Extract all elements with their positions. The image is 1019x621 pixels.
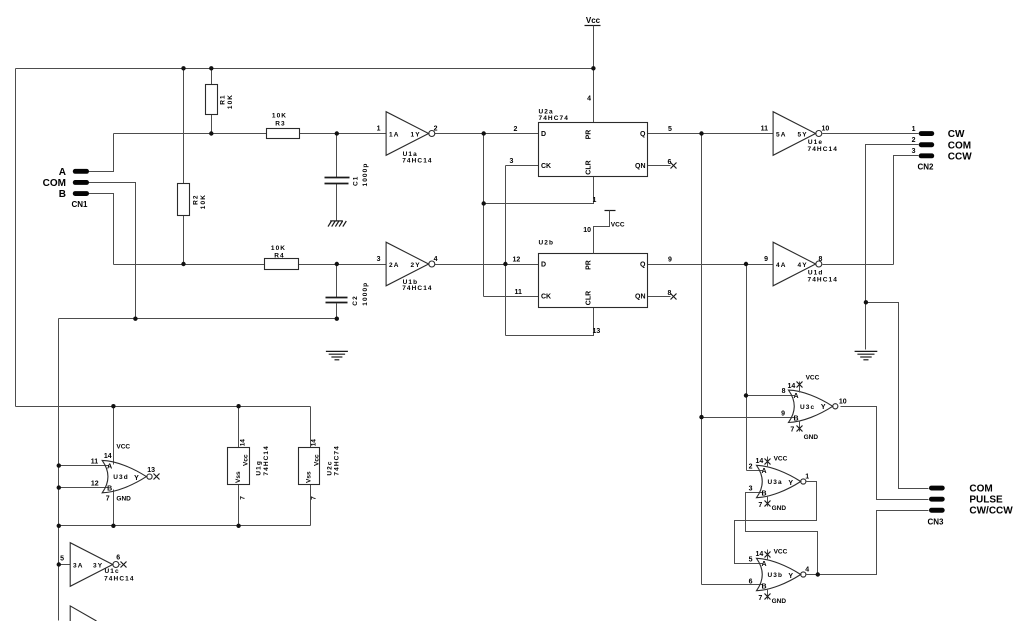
wire ground stem xyxy=(865,303,867,350)
svg-text:U3c: U3c xyxy=(800,404,815,411)
svg-text:11: 11 xyxy=(761,126,769,133)
svg-text:D: D xyxy=(541,131,546,138)
svg-text:B: B xyxy=(59,189,66,200)
svg-text:Q: Q xyxy=(640,262,646,269)
svg-text:1A: 1A xyxy=(389,131,400,138)
wire COM left vertical xyxy=(58,319,60,621)
svg-text:3: 3 xyxy=(749,486,753,493)
svg-text:GND: GND xyxy=(804,434,819,441)
svg-text:VCC: VCC xyxy=(116,443,130,450)
svg-text:PR: PR xyxy=(586,130,593,140)
svg-text:9: 9 xyxy=(668,257,672,264)
svg-text:74HC14: 74HC14 xyxy=(402,157,432,164)
svg-text:GND: GND xyxy=(772,598,787,605)
wire to U2a CK pin3 xyxy=(506,165,539,167)
wire B row to R4 xyxy=(114,264,265,266)
wire CN1 A to node xyxy=(89,134,114,172)
svg-text:14: 14 xyxy=(104,453,112,460)
inverter U1b 74HC14 xyxy=(386,242,435,286)
svg-text:D: D xyxy=(541,262,546,269)
svg-text:2: 2 xyxy=(514,126,518,133)
node Vcc/R1 xyxy=(209,66,213,70)
svg-text:10: 10 xyxy=(583,227,591,234)
wire Q9 node vertical xyxy=(746,265,748,471)
svg-text:B: B xyxy=(761,491,766,498)
svg-text:9: 9 xyxy=(781,410,785,417)
svg-text:4: 4 xyxy=(587,96,591,103)
svg-text:74HC74: 74HC74 xyxy=(539,115,569,122)
svg-text:11: 11 xyxy=(91,459,99,466)
wire U3a output pin1 to U3b input A pin5 xyxy=(735,482,817,564)
svg-text:CN1: CN1 xyxy=(72,200,89,209)
wire R2 top stem xyxy=(183,69,185,184)
wire U1e output to CN2 pin1 xyxy=(823,133,919,135)
resistor R3 xyxy=(267,129,300,139)
svg-text:U1d: U1d xyxy=(808,269,824,276)
svg-text:5: 5 xyxy=(60,556,64,563)
svg-text:8: 8 xyxy=(782,388,786,395)
no-connect X U1c output pin6 xyxy=(121,562,127,568)
wire GND lower rail xyxy=(59,525,311,527)
node Vcc stem xyxy=(591,66,595,70)
svg-text:12: 12 xyxy=(91,481,99,488)
node A/R1 xyxy=(209,131,213,135)
svg-text:A: A xyxy=(761,561,766,568)
wire U1c input xyxy=(59,564,71,566)
connector CN2 pin 3 xyxy=(919,153,935,158)
svg-text:14: 14 xyxy=(756,551,764,558)
svg-text:3A: 3A xyxy=(73,562,84,569)
ground (hatched) under C1 xyxy=(328,221,346,227)
svg-text:10K: 10K xyxy=(200,194,207,209)
node Q9 xyxy=(744,262,748,266)
wire U2b Q9 to U1d input xyxy=(648,264,774,266)
svg-text:QN: QN xyxy=(635,163,646,170)
svg-text:Vcc: Vcc xyxy=(313,454,320,466)
node U3c A xyxy=(744,393,748,397)
svg-text:10K: 10K xyxy=(227,94,234,109)
wire node D2/CLR1/CK11 vertical xyxy=(483,134,485,297)
node GND rail U1g xyxy=(236,524,240,528)
svg-text:4Y: 4Y xyxy=(798,262,808,269)
node Vcc/R2 xyxy=(181,66,185,70)
svg-text:GND: GND xyxy=(116,495,131,502)
svg-text:2Y: 2Y xyxy=(411,262,421,269)
svg-text:74HC14: 74HC14 xyxy=(808,146,838,153)
capacitor C1 xyxy=(325,178,350,184)
svg-text:3: 3 xyxy=(912,148,916,155)
svg-text:2: 2 xyxy=(749,463,753,470)
connector CN3 pin COM xyxy=(929,486,945,491)
wire U3d input A xyxy=(59,465,109,467)
node U1b out xyxy=(503,262,507,266)
inverter U1e 74HC14 xyxy=(773,112,822,156)
svg-text:74HC14: 74HC14 xyxy=(808,277,838,284)
wire U3b output pin4 to CN3 CW/CCW xyxy=(807,511,929,575)
PARTS xyxy=(57,66,945,621)
power symbol VCC (T-bar) at U2b PR xyxy=(594,211,616,254)
svg-text:7: 7 xyxy=(758,595,762,602)
svg-text:1000p: 1000p xyxy=(362,282,369,306)
svg-text:7: 7 xyxy=(311,496,318,500)
svg-text:3: 3 xyxy=(510,158,514,165)
connector CN2 pin 1 xyxy=(919,131,935,136)
wire U1b output to U2b D xyxy=(435,264,539,266)
U3c pin7 stub with X xyxy=(799,421,801,432)
svg-text:VCC: VCC xyxy=(611,221,625,228)
svg-text:Y: Y xyxy=(788,573,793,580)
node COM U3d B xyxy=(57,485,61,489)
wire C1 top stem xyxy=(336,134,338,178)
svg-text:B: B xyxy=(761,584,766,591)
wire VCC lower rail xyxy=(16,406,311,408)
no-connect X U3d output pin13 xyxy=(154,474,160,480)
svg-text:1: 1 xyxy=(377,126,381,133)
node COM U1c xyxy=(57,562,61,566)
no-connect X U2b QN pin8 xyxy=(671,294,677,300)
wire U3d pin7 GND stub xyxy=(113,490,115,526)
svg-text:7: 7 xyxy=(240,496,247,500)
connector CN1 pin A xyxy=(73,169,89,174)
svg-text:U3b: U3b xyxy=(768,572,784,579)
wire U2c pin7 stem xyxy=(310,485,312,526)
svg-text:CK: CK xyxy=(541,163,551,170)
nor gate U3b xyxy=(757,558,806,590)
svg-text:C1: C1 xyxy=(353,175,360,186)
svg-text:A: A xyxy=(761,468,766,475)
svg-text:Y: Y xyxy=(788,480,793,487)
wire node D12/CK3/CLR13 vertical xyxy=(505,166,507,336)
svg-text:U2b: U2b xyxy=(539,240,555,247)
svg-text:74HC74: 74HC74 xyxy=(334,445,341,475)
wire Vcc stem to U2a PR pin4 xyxy=(593,26,595,123)
svg-text:U3a: U3a xyxy=(768,479,783,486)
wire R1 top stem xyxy=(211,69,213,85)
wire U2a QN pin6 stub xyxy=(648,165,671,167)
wire VCC top rail xyxy=(16,68,594,70)
wire R2 bottom stem xyxy=(183,216,185,265)
connector CN3 pin PULSE xyxy=(929,497,945,502)
svg-text:U3d: U3d xyxy=(113,474,129,481)
wire COM/GND rail xyxy=(59,318,337,320)
svg-text:VCC: VCC xyxy=(806,374,820,381)
resistor R1 xyxy=(206,85,218,115)
node VCC rail U3d xyxy=(111,404,115,408)
svg-text:CW: CW xyxy=(948,129,965,140)
svg-text:Vcc: Vcc xyxy=(586,16,601,25)
svg-text:1000p: 1000p xyxy=(362,163,369,187)
svg-text:7: 7 xyxy=(758,502,762,509)
inverter U1f 74HC14 (partial) xyxy=(70,606,96,621)
connector CN2 pin 2 xyxy=(919,142,935,147)
svg-text:6: 6 xyxy=(749,579,753,586)
wire to U3c input A pin8 xyxy=(747,395,795,397)
power symbol Vcc (top) xyxy=(585,16,601,26)
svg-text:Vss: Vss xyxy=(306,471,313,483)
svg-text:1: 1 xyxy=(593,197,597,204)
svg-text:Vcc: Vcc xyxy=(243,454,250,466)
svg-text:10K: 10K xyxy=(271,245,286,252)
svg-text:U1g: U1g xyxy=(256,460,263,476)
wire R1 bottom stem xyxy=(211,115,213,134)
wire Q5 node vertical xyxy=(701,134,703,585)
svg-text:QN: QN xyxy=(635,294,646,301)
svg-text:14: 14 xyxy=(756,458,764,465)
nor gate U3c xyxy=(789,390,838,422)
wire U3d pin14 VCC stub xyxy=(113,407,115,465)
wire U1g pin7 stem xyxy=(238,485,240,526)
svg-text:1Y: 1Y xyxy=(411,131,421,138)
svg-text:CLR: CLR xyxy=(586,291,593,305)
node U3b out xyxy=(816,572,820,576)
svg-text:Y: Y xyxy=(821,404,826,411)
nor gate U3a xyxy=(757,465,806,497)
wire U1d output xyxy=(823,264,894,266)
svg-text:74HC14: 74HC14 xyxy=(402,285,432,292)
ground (bars) under C2 xyxy=(326,351,348,359)
wire VCC left drop xyxy=(15,69,17,407)
svg-text:CK: CK xyxy=(541,294,551,301)
svg-text:GND: GND xyxy=(772,505,787,512)
connector CN1 pin COM xyxy=(73,180,89,185)
node CLR1 xyxy=(482,201,486,205)
svg-text:VCC: VCC xyxy=(774,456,788,463)
svg-text:14: 14 xyxy=(788,383,796,390)
svg-text:A: A xyxy=(59,167,66,178)
wire U1g pin14 stem xyxy=(238,407,240,448)
U3a pin7 stub with X xyxy=(767,496,769,507)
node U3c B xyxy=(699,415,703,419)
wire CN1 COM to ground rail xyxy=(89,183,136,319)
svg-text:2: 2 xyxy=(912,137,916,144)
svg-text:B: B xyxy=(793,415,798,422)
U3c pin14 stub with X xyxy=(799,382,801,393)
svg-text:A: A xyxy=(107,463,112,470)
svg-text:U1c: U1c xyxy=(105,568,120,575)
svg-text:3Y: 3Y xyxy=(93,562,103,569)
wire to U2b CK pin11 xyxy=(484,296,539,298)
node U1a out xyxy=(482,131,486,135)
wire C2 top stem xyxy=(336,265,338,298)
ground (bars) below CN2 COM xyxy=(855,351,878,359)
wire R3 to U1a input xyxy=(300,133,387,135)
svg-text:5Y: 5Y xyxy=(798,131,808,138)
svg-text:A: A xyxy=(793,393,798,400)
nor gate U3d xyxy=(102,460,152,492)
svg-text:4A: 4A xyxy=(776,262,787,269)
svg-text:Q: Q xyxy=(640,131,646,138)
svg-text:13: 13 xyxy=(593,328,601,335)
wire U3d input B xyxy=(59,487,109,489)
svg-text:12: 12 xyxy=(513,257,521,264)
svg-text:74HC14: 74HC14 xyxy=(104,575,134,582)
wire to U3c input B pin9 xyxy=(702,417,795,419)
wire CN2 pin2 COM xyxy=(866,145,919,303)
svg-text:COM: COM xyxy=(969,483,992,494)
wire COM jog to CN3 xyxy=(866,303,929,489)
svg-text:8: 8 xyxy=(819,256,823,263)
wire U2a Q5 to U1e input xyxy=(648,133,774,135)
svg-text:6: 6 xyxy=(116,555,120,562)
svg-text:5: 5 xyxy=(668,126,672,133)
svg-text:14: 14 xyxy=(239,439,246,447)
svg-text:8: 8 xyxy=(668,290,672,297)
svg-text:R4: R4 xyxy=(274,253,285,260)
node CN2 COM branch xyxy=(864,300,868,304)
svg-text:Y: Y xyxy=(134,475,139,482)
connector CN3 pin CW/CCW xyxy=(929,508,945,513)
node B/C2 xyxy=(335,262,339,266)
wire CN1 B to node xyxy=(89,194,114,265)
svg-text:10K: 10K xyxy=(272,113,287,120)
svg-text:9: 9 xyxy=(764,256,768,263)
svg-text:7: 7 xyxy=(106,495,110,502)
svg-text:U1e: U1e xyxy=(808,139,823,146)
svg-text:1: 1 xyxy=(912,126,916,133)
wire R4 to U1b input xyxy=(299,264,387,266)
wire C1 bottom stem xyxy=(336,184,338,221)
node GND rail left xyxy=(57,524,61,528)
svg-text:2: 2 xyxy=(434,126,438,133)
svg-text:6: 6 xyxy=(668,159,672,166)
svg-text:13: 13 xyxy=(147,467,155,474)
wire U2a CLR pin1 row xyxy=(484,177,594,204)
svg-text:COM: COM xyxy=(948,140,971,151)
svg-text:5A: 5A xyxy=(776,131,787,138)
wire to U3b input B pin6 xyxy=(702,584,763,586)
flip-flop U2b 74HC74 box xyxy=(539,254,648,308)
svg-text:VCC: VCC xyxy=(774,549,788,556)
no-connect X U2a QN pin6 xyxy=(671,163,677,169)
node C2 gnd xyxy=(335,317,339,321)
svg-text:5: 5 xyxy=(749,556,753,563)
inverter U1c 74HC14 xyxy=(70,543,120,587)
wire CN2 pin3 CCW xyxy=(894,156,919,265)
resistor R2 xyxy=(178,184,190,216)
wire U2c pin14 stem xyxy=(310,407,312,448)
inverter U1d 74HC14 xyxy=(773,242,822,286)
wire A row to R3 xyxy=(114,133,267,135)
svg-text:4: 4 xyxy=(805,567,809,574)
U3b pin14 stub with X xyxy=(767,550,769,561)
node VCC rail U1g xyxy=(236,404,240,408)
svg-text:10: 10 xyxy=(839,398,847,405)
svg-text:U2c: U2c xyxy=(326,460,333,475)
wire U1a output to U2a D xyxy=(435,133,539,135)
svg-text:2A: 2A xyxy=(389,262,400,269)
resistor R4 xyxy=(265,259,299,270)
U3a pin14 stub with X xyxy=(767,457,769,468)
svg-text:CLR: CLR xyxy=(586,160,593,174)
capacitor C2 xyxy=(326,298,348,303)
node COM drop xyxy=(133,317,137,321)
svg-text:COM: COM xyxy=(43,178,66,189)
svg-text:C2: C2 xyxy=(352,295,359,306)
svg-text:CN3: CN3 xyxy=(928,517,945,526)
svg-text:74HC14: 74HC14 xyxy=(263,445,270,475)
svg-text:10: 10 xyxy=(822,126,830,133)
svg-text:3: 3 xyxy=(377,256,381,263)
svg-text:R2: R2 xyxy=(193,194,200,205)
connector CN1 pin B xyxy=(73,191,89,196)
svg-text:Vss: Vss xyxy=(235,471,242,483)
flip-flop U2a 74HC74 box xyxy=(539,123,648,177)
wire C2 bottom stem xyxy=(336,304,338,319)
svg-text:1: 1 xyxy=(805,474,809,481)
svg-text:CN2: CN2 xyxy=(918,163,935,172)
svg-text:11: 11 xyxy=(515,289,523,296)
node COM U3d A xyxy=(57,463,61,467)
U3b pin7 stub with X xyxy=(767,589,769,600)
wire U3a input B pin3 from U3b output xyxy=(746,493,818,575)
svg-text:PULSE: PULSE xyxy=(969,495,1003,506)
svg-text:R1: R1 xyxy=(219,94,226,105)
wire U2b CLR pin13 row xyxy=(506,308,594,336)
svg-text:PR: PR xyxy=(586,260,593,270)
node A/C1 xyxy=(335,131,339,135)
node Q5 xyxy=(699,131,703,135)
svg-text:B: B xyxy=(107,486,112,493)
svg-text:14: 14 xyxy=(310,439,317,447)
svg-text:7: 7 xyxy=(790,427,794,434)
wire U3c output pin10 to CN3 PULSE xyxy=(841,407,929,500)
wire U2b QN pin8 stub xyxy=(648,296,671,298)
node GND rail U3d xyxy=(111,524,115,528)
svg-text:CCW: CCW xyxy=(948,152,972,163)
svg-text:4: 4 xyxy=(434,256,438,263)
wire to U3a input A pin2 xyxy=(747,470,763,472)
power block U2c 74HC74 xyxy=(299,448,320,485)
power block U1g 74HC14 xyxy=(228,448,250,485)
svg-text:R3: R3 xyxy=(275,120,286,127)
node B/R2 xyxy=(181,262,185,266)
inverter U1a 74HC14 xyxy=(386,112,435,156)
svg-text:CW/CCW: CW/CCW xyxy=(969,506,1013,517)
